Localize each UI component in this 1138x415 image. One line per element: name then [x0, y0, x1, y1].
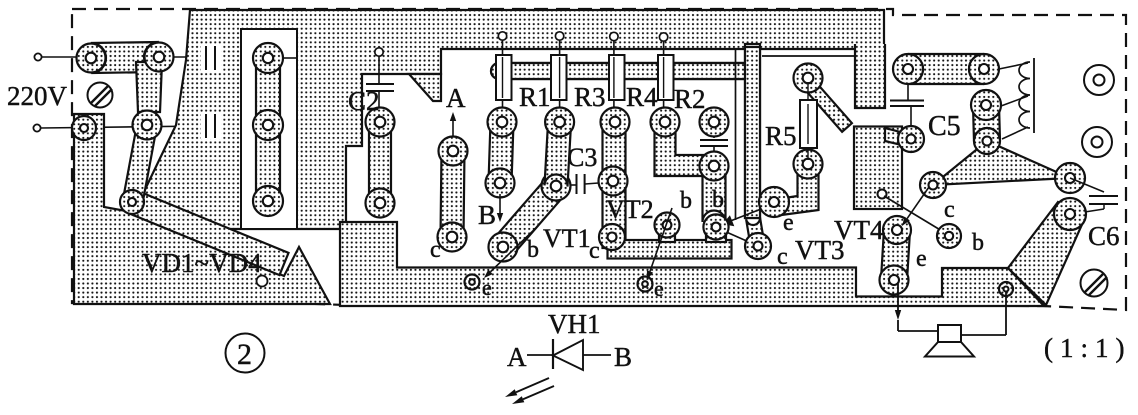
svg-text:b: b — [527, 237, 539, 263]
svg-text:C2: C2 — [348, 86, 380, 116]
svg-text:b: b — [712, 187, 724, 213]
svg-text:R5: R5 — [765, 121, 797, 151]
svg-text:R1: R1 — [519, 82, 551, 112]
svg-text:VT2: VT2 — [606, 195, 654, 224]
svg-text:VT1: VT1 — [543, 224, 591, 253]
svg-text:c: c — [589, 238, 600, 264]
svg-text:2: 2 — [237, 338, 252, 371]
svg-text:C5: C5 — [928, 111, 961, 142]
svg-text:b: b — [972, 230, 984, 256]
svg-text:220V: 220V — [7, 81, 68, 111]
svg-text:VD1~VD4: VD1~VD4 — [142, 248, 262, 278]
svg-text:C6: C6 — [1088, 221, 1120, 251]
svg-text:R2: R2 — [674, 84, 706, 114]
svg-text:c: c — [944, 197, 955, 223]
svg-text:e: e — [916, 246, 927, 272]
svg-text:c: c — [777, 244, 788, 270]
svg-text:VT4: VT4 — [834, 215, 884, 245]
svg-text:c: c — [430, 237, 441, 263]
svg-text:R4: R4 — [626, 82, 658, 112]
svg-text:A: A — [507, 342, 527, 372]
svg-text:(1:1): (1:1) — [1044, 333, 1131, 363]
svg-text:e: e — [482, 275, 492, 300]
svg-text:B: B — [614, 342, 632, 372]
svg-text:e: e — [654, 276, 664, 301]
svg-text:R3: R3 — [574, 82, 606, 112]
svg-text:B: B — [478, 200, 496, 230]
svg-text:b: b — [680, 188, 692, 214]
svg-text:A: A — [446, 83, 466, 113]
svg-text:C3: C3 — [567, 143, 597, 172]
svg-text:VH1: VH1 — [548, 309, 601, 339]
